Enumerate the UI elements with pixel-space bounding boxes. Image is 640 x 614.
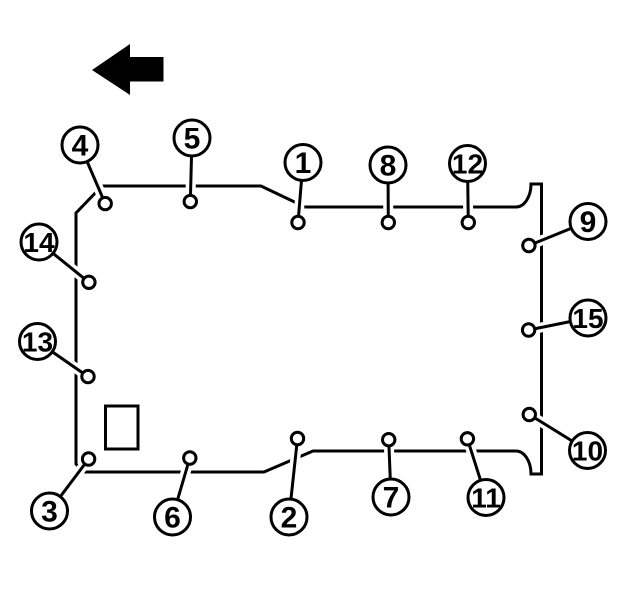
svg-text:10: 10 [572, 436, 603, 467]
leader line 8 [383, 165, 393, 223]
bolt hole 4 [99, 197, 111, 209]
leader line 15 [529, 318, 588, 330]
callout circle 8 [370, 147, 406, 183]
bolt hole 9 [523, 239, 535, 251]
front direction arrow [92, 44, 164, 95]
bolt hole 7 [383, 434, 395, 446]
callout circle 11 [468, 480, 504, 516]
bolt hole 14 [83, 276, 95, 288]
svg-text:9: 9 [580, 206, 597, 239]
callout circle 3 [32, 493, 68, 529]
callout circle 14 [21, 224, 57, 260]
callout circle 2 [271, 499, 307, 535]
bolt hole 13 [82, 370, 94, 382]
leader line 1 [298, 163, 303, 223]
leader line 13 [38, 342, 89, 377]
leader line 5 [190, 138, 192, 202]
callout circle 4 [62, 127, 98, 163]
leader line 10 [529, 415, 587, 451]
svg-text:14: 14 [23, 227, 55, 258]
leader line 3 [50, 459, 89, 511]
svg-text:8: 8 [380, 150, 397, 183]
svg-text:2: 2 [281, 502, 298, 535]
svg-text:5: 5 [184, 123, 201, 156]
bolt hole 12 [462, 216, 474, 228]
leader line 2 [289, 439, 298, 518]
svg-text:12: 12 [452, 149, 483, 180]
bolt hole 3 [82, 453, 94, 465]
svg-text:11: 11 [471, 483, 501, 514]
bolt hole 8 [382, 216, 394, 228]
svg-text:15: 15 [572, 303, 603, 334]
bolt hole 5 [184, 195, 196, 207]
callout circle 12 [450, 146, 486, 182]
svg-text:4: 4 [72, 130, 89, 163]
callout circle 9 [570, 204, 606, 240]
svg-text:1: 1 [295, 147, 312, 180]
bolt hole 15 [522, 324, 534, 336]
svg-text:7: 7 [383, 482, 400, 515]
callout circle 5 [174, 120, 210, 156]
callout circle 13 [20, 324, 56, 360]
svg-text:3: 3 [41, 496, 58, 529]
bolt hole 10 [523, 408, 535, 420]
callout circle 15 [570, 300, 606, 336]
leader line 7 [389, 440, 391, 497]
oil pan outline [76, 184, 542, 474]
leader line 4 [80, 145, 105, 204]
leader line 9 [529, 222, 588, 246]
bolt hole 1 [292, 216, 304, 228]
leader line 12 [463, 164, 474, 223]
bolt hole 2 [291, 432, 303, 444]
callout circle 6 [155, 499, 191, 535]
svg-text:6: 6 [164, 502, 181, 535]
leader line 14 [39, 242, 89, 282]
callout circle 7 [373, 479, 409, 515]
leader line 11 [467, 439, 486, 498]
bolt hole 6 [184, 452, 196, 464]
callout circle 10 [570, 433, 606, 469]
bolt hole 11 [461, 433, 473, 445]
leader line 6 [173, 458, 190, 517]
svg-text:13: 13 [22, 327, 53, 358]
callout circle 1 [285, 145, 321, 181]
drain plug rectangle [106, 406, 139, 449]
